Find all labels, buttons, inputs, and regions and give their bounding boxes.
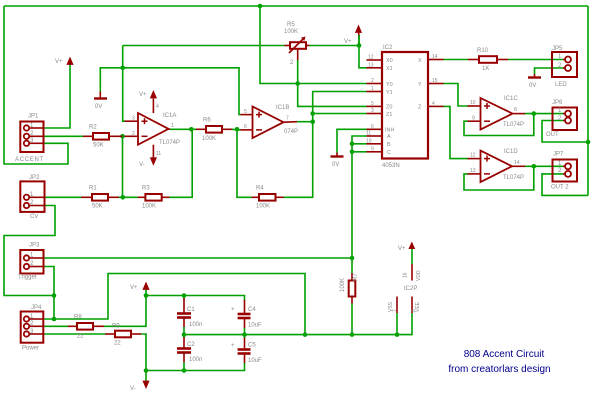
wire trimpot wiper down to Y0 and Z0 bbox=[298, 60, 367, 106]
svg-text:C4: C4 bbox=[248, 307, 256, 313]
junction top rail / Y0 drop bbox=[258, 4, 263, 9]
svg-text:12: 12 bbox=[368, 55, 374, 61]
wire 0V ground line to IC1B +in bbox=[100, 68, 240, 115]
junction GND rail C1 C2 bbox=[182, 332, 187, 337]
svg-text:JP3: JP3 bbox=[29, 243, 40, 249]
wire Z1 line bbox=[313, 113, 367, 115]
wire JP1 pin1 to V+ arrow bbox=[44, 63, 70, 128]
svg-text:50K: 50K bbox=[93, 143, 104, 149]
junction GND rail pulldown bbox=[350, 332, 355, 337]
svg-text:1: 1 bbox=[171, 123, 174, 129]
svg-text:7: 7 bbox=[286, 116, 289, 122]
svg-text:15: 15 bbox=[432, 78, 438, 84]
svg-text:OUT 2: OUT 2 bbox=[551, 185, 569, 191]
junction V- rail left bbox=[144, 368, 149, 373]
IC1A V+ power arrow bbox=[139, 90, 159, 113]
wire select A bbox=[352, 136, 367, 144]
svg-text:100K: 100K bbox=[142, 204, 156, 210]
junction right border JP6 pin2 bbox=[586, 140, 591, 145]
svg-text:IC2: IC2 bbox=[383, 45, 393, 51]
connector JP4 bbox=[21, 312, 44, 343]
wire X out to R10 bbox=[444, 59, 469, 61]
wire JP4 pin3 to R9 bbox=[44, 333, 105, 335]
junction left loop / JP3 pin2 bbox=[52, 293, 57, 298]
svg-text:14: 14 bbox=[432, 54, 438, 60]
svg-text:C2: C2 bbox=[187, 342, 195, 348]
wire IC1D feedback loop bbox=[464, 166, 534, 190]
junction IC1C output bbox=[532, 111, 537, 116]
svg-text:CV: CV bbox=[30, 214, 38, 220]
svg-text:C5: C5 bbox=[248, 343, 256, 349]
wire C2 bottom lead bbox=[183, 362, 185, 371]
wire trimpot line bbox=[123, 45, 285, 47]
V- arrow power section bbox=[130, 381, 150, 392]
svg-text:V+: V+ bbox=[344, 39, 352, 45]
junction IC1B -in / R4 feedback bbox=[235, 127, 240, 132]
wire JP2 pin1 to R1 bbox=[44, 196, 81, 198]
wire C5 top lead bbox=[244, 335, 246, 338]
wire left border down to JP1 pin3 bbox=[4, 6, 68, 164]
svg-text:100K: 100K bbox=[202, 136, 216, 142]
svg-text:X: X bbox=[418, 58, 422, 64]
svg-text:Z1: Z1 bbox=[386, 112, 392, 118]
wire R4 right to IC1B output vertical bbox=[284, 122, 313, 198]
wire IC2P VDD lead bbox=[411, 247, 413, 264]
resistor R10 output bbox=[468, 48, 508, 72]
svg-text:100K: 100K bbox=[340, 278, 346, 292]
junction IC1A -in node bbox=[120, 134, 125, 139]
labels JP7 / OUT 2 bbox=[551, 152, 569, 191]
junction V+ / trimpot line bbox=[357, 43, 362, 48]
wire V+ arrow to rail bbox=[145, 289, 147, 296]
svg-text:8: 8 bbox=[411, 309, 417, 312]
wire Y1 line bbox=[313, 92, 367, 122]
junction select B bbox=[350, 142, 355, 147]
wire Y out to IC1C +in bbox=[444, 84, 469, 107]
wire V- arrow stub bbox=[145, 371, 147, 382]
svg-text:13: 13 bbox=[470, 168, 476, 174]
wire JP5 pin2 to 0V bbox=[535, 68, 564, 74]
wire 0V to IC1A +in vertical bbox=[123, 46, 125, 122]
svg-text:100n: 100n bbox=[189, 322, 202, 328]
svg-text:C: C bbox=[387, 150, 391, 156]
svg-text:Y1: Y1 bbox=[386, 90, 393, 96]
wire C2 top lead bbox=[183, 335, 185, 338]
wire R8 to V+ vertical bbox=[104, 296, 146, 327]
svg-text:074P: 074P bbox=[284, 129, 298, 135]
wire GND mid rail bbox=[184, 313, 412, 335]
svg-text:R9: R9 bbox=[112, 324, 120, 330]
svg-text:IC1D: IC1D bbox=[504, 149, 518, 155]
ground 0V at IC2 INH bbox=[331, 153, 344, 169]
resistor R2 bbox=[83, 125, 123, 149]
junction JP4 pin1 bbox=[52, 317, 57, 322]
wire top rail drop to Y0 line bbox=[260, 6, 367, 84]
svg-text:Trigger: Trigger bbox=[18, 275, 37, 281]
connector JP6 bbox=[553, 108, 578, 131]
junction V+ rail left bbox=[144, 293, 149, 298]
svg-text:IC1B: IC1B bbox=[276, 105, 289, 111]
svg-text:R7: R7 bbox=[353, 273, 359, 281]
ground 0V at JP5 bbox=[528, 74, 541, 89]
svg-text:4: 4 bbox=[156, 104, 159, 110]
svg-text:V-: V- bbox=[139, 162, 145, 168]
svg-text:8: 8 bbox=[514, 107, 517, 113]
junction wiper / Y0 line bbox=[295, 81, 300, 86]
svg-text:13: 13 bbox=[368, 62, 374, 68]
svg-text:TL074P: TL074P bbox=[159, 140, 180, 146]
junction GND rail C4 C5 bbox=[242, 332, 247, 337]
wire JP4 pin2 to R8 bbox=[44, 325, 68, 327]
labels JP1 / ACCENT bbox=[15, 114, 44, 164]
svg-text:0V: 0V bbox=[529, 83, 536, 89]
wire V- rail bbox=[146, 363, 245, 371]
svg-text:22: 22 bbox=[114, 341, 121, 347]
svg-text:Z0: Z0 bbox=[386, 105, 392, 111]
op-amp IC1A bbox=[125, 113, 181, 146]
wire trigger line JP3 pin1 to pulldown bbox=[44, 257, 352, 259]
svg-text:+: + bbox=[231, 343, 235, 349]
connector JP7 bbox=[553, 160, 578, 182]
V+ arrow at trimpot line bbox=[344, 25, 362, 46]
wire IC1B feedback left vertical bbox=[237, 129, 252, 197]
svg-text:JP1: JP1 bbox=[28, 114, 39, 120]
svg-text:0V: 0V bbox=[95, 104, 102, 110]
svg-text:from creatorlars design: from creatorlars design bbox=[448, 364, 550, 375]
svg-text:50K: 50K bbox=[92, 204, 103, 210]
labels JP4 / Power bbox=[22, 305, 42, 352]
junction V- rail C2 bbox=[182, 368, 187, 373]
svg-text:OUT: OUT bbox=[546, 132, 559, 138]
svg-text:ACCENT: ACCENT bbox=[15, 157, 44, 163]
svg-text:6: 6 bbox=[371, 124, 374, 130]
svg-text:R6: R6 bbox=[203, 118, 211, 124]
svg-text:11: 11 bbox=[366, 131, 371, 137]
svg-text:+: + bbox=[231, 307, 235, 313]
capacitor C5 electrolytic bbox=[231, 338, 262, 365]
junction 0V line / IC1A +in drop bbox=[120, 66, 125, 71]
svg-text:4053N: 4053N bbox=[382, 163, 400, 169]
svg-text:V+: V+ bbox=[130, 285, 138, 291]
wire R6 right to IC1B -in bbox=[232, 128, 241, 131]
wire select C bbox=[352, 152, 367, 258]
wire R10 to JP5 pin1 bbox=[508, 59, 564, 61]
svg-text:IC1A: IC1A bbox=[163, 113, 176, 119]
junction trigger / pulldown bbox=[350, 256, 355, 261]
svg-text:V-: V- bbox=[130, 386, 136, 392]
svg-text:6: 6 bbox=[244, 124, 247, 130]
svg-text:22: 22 bbox=[77, 334, 84, 340]
wire right border down bbox=[587, 6, 589, 195]
wire JP4 pin1 to GND rail bbox=[44, 274, 305, 335]
labels JP2 / CV bbox=[29, 175, 40, 220]
svg-text:Y0: Y0 bbox=[386, 82, 393, 88]
svg-text:V+: V+ bbox=[55, 59, 63, 65]
svg-text:X1: X1 bbox=[386, 66, 393, 72]
wire C1 bottom lead bbox=[183, 327, 185, 335]
ground 0V near IC1A input network bbox=[94, 92, 107, 111]
wire select B bbox=[352, 144, 367, 152]
wire IC1A feedback down bbox=[123, 136, 138, 197]
wire INH to 0V bbox=[337, 129, 367, 152]
capacitor C1 bbox=[177, 298, 202, 328]
svg-text:9: 9 bbox=[371, 146, 374, 152]
svg-text:A: A bbox=[387, 134, 391, 140]
title text bbox=[448, 349, 550, 375]
wire V+ rail bbox=[146, 296, 245, 301]
svg-text:V+: V+ bbox=[398, 246, 406, 252]
svg-text:100n: 100n bbox=[189, 357, 202, 363]
svg-text:2: 2 bbox=[371, 78, 374, 84]
svg-text:IC2P: IC2P bbox=[404, 286, 417, 292]
V+ arrow power section bbox=[130, 282, 150, 292]
resistor R4 feedback IC1B bbox=[252, 186, 284, 210]
wire top rail bbox=[4, 5, 588, 7]
svg-text:5: 5 bbox=[244, 109, 247, 115]
svg-text:10: 10 bbox=[470, 100, 476, 106]
svg-text:R1: R1 bbox=[89, 186, 97, 192]
resistor R6 between op-amps bbox=[196, 118, 232, 143]
junction R1 R3 node bbox=[121, 195, 126, 200]
svg-text:X0: X0 bbox=[386, 58, 393, 64]
svg-text:2: 2 bbox=[132, 131, 135, 137]
svg-text:Power: Power bbox=[22, 346, 39, 352]
capacitor C2 bbox=[177, 337, 202, 363]
junction IC1D output bbox=[532, 164, 537, 169]
junction GND rail VSS bbox=[395, 332, 400, 337]
svg-text:R5: R5 bbox=[287, 22, 295, 28]
wire R9 to V- vertical bbox=[141, 334, 146, 371]
svg-text:5: 5 bbox=[371, 101, 374, 107]
wire JP1 pin2 to R2 bbox=[44, 135, 83, 137]
svg-text:JP7: JP7 bbox=[553, 152, 564, 158]
svg-text:3: 3 bbox=[132, 116, 135, 122]
wire C1 top lead bbox=[183, 296, 185, 300]
wire IC1A output line through R6 to IC1B bbox=[170, 128, 196, 130]
wire C4 bottom lead bbox=[244, 328, 246, 335]
connector JP3 bbox=[20, 250, 44, 274]
wire IC1D output to JP7 pin1 bbox=[525, 165, 564, 167]
svg-text:10uF: 10uF bbox=[248, 358, 262, 364]
capacitor C4 electrolytic bbox=[231, 300, 262, 329]
labels JP5 / LED bbox=[552, 46, 567, 88]
wire JP3 pin2 down bbox=[44, 267, 54, 320]
svg-text:R4: R4 bbox=[256, 186, 264, 192]
connector JP2 bbox=[20, 181, 44, 212]
svg-text:INH: INH bbox=[385, 128, 395, 134]
wire JP6 pin2 to right border bbox=[542, 121, 588, 143]
svg-text:TL074P: TL074P bbox=[503, 175, 524, 181]
wire JP2 pin2 lower left loop bbox=[4, 206, 55, 296]
junction IC1A out / R3 feedback bbox=[189, 127, 194, 132]
wire R3 right to feedback corner bbox=[170, 129, 193, 197]
connector JP1 bbox=[20, 122, 44, 153]
IC1A V- power arrow bbox=[139, 145, 161, 168]
wire JP7 pin2 to right border bottom bbox=[542, 174, 588, 196]
op-amp IC1C bbox=[468, 96, 526, 130]
svg-text:100K: 100K bbox=[284, 29, 298, 35]
svg-text:V+: V+ bbox=[139, 92, 147, 98]
wire R1 to junction bbox=[119, 196, 123, 198]
svg-text:JP6: JP6 bbox=[552, 100, 563, 106]
svg-text:10uF: 10uF bbox=[248, 323, 262, 329]
svg-text:10: 10 bbox=[366, 138, 372, 144]
junction GND rail trigger return bbox=[303, 332, 308, 337]
wire IC1C output to JP6 pin1 bbox=[525, 113, 564, 115]
svg-text:TL074P: TL074P bbox=[503, 122, 524, 128]
wire trimpot right to V+ junction to IC2 X1 bbox=[310, 45, 360, 47]
svg-text:11: 11 bbox=[156, 151, 161, 157]
svg-text:1: 1 bbox=[371, 86, 374, 92]
wire pulldown top lead bbox=[351, 258, 353, 273]
wire IC1B output bbox=[297, 121, 313, 123]
svg-text:12: 12 bbox=[470, 153, 476, 159]
V+ arrow top-left (JP1 pin1) bbox=[55, 57, 74, 66]
wire pulldown bottom to GND rail bbox=[351, 304, 353, 335]
svg-text:R10: R10 bbox=[477, 48, 489, 54]
resistor R3 bbox=[138, 186, 170, 210]
labels JP6 / OUT bbox=[546, 100, 563, 138]
svg-text:3: 3 bbox=[371, 108, 374, 114]
junction select C bbox=[350, 150, 355, 155]
resistor R7 pulldown vertical bbox=[340, 273, 359, 304]
svg-text:7: 7 bbox=[392, 309, 398, 312]
resistor R1 bbox=[81, 186, 119, 210]
op-amp IC1D bbox=[468, 149, 526, 182]
resistor R8 power bbox=[68, 315, 104, 340]
svg-text:Y: Y bbox=[418, 82, 422, 88]
IC2 analog switch 4053N bbox=[366, 45, 444, 169]
svg-text:R3: R3 bbox=[142, 186, 150, 192]
svg-text:R8: R8 bbox=[74, 315, 82, 321]
svg-text:LED: LED bbox=[555, 82, 567, 88]
connector JP5 bbox=[552, 52, 577, 77]
IC2P power gate bbox=[388, 242, 422, 314]
svg-text:R2: R2 bbox=[89, 125, 97, 131]
svg-text:IC1C: IC1C bbox=[504, 96, 518, 102]
svg-text:4: 4 bbox=[432, 101, 435, 107]
svg-text:1K: 1K bbox=[482, 66, 489, 72]
junction IC1B output bbox=[310, 119, 315, 124]
svg-text:14: 14 bbox=[514, 160, 520, 166]
svg-text:VDD: VDD bbox=[416, 270, 422, 281]
wire V+ arrow to X1 pin13 bbox=[359, 35, 367, 68]
wire IC1C feedback loop bbox=[464, 114, 534, 136]
wire Z out to IC1D +in bbox=[444, 106, 469, 158]
junction Z1 / IC1B out net bbox=[310, 111, 315, 116]
svg-text:0V: 0V bbox=[332, 162, 339, 168]
svg-text:9: 9 bbox=[472, 116, 475, 122]
resistor R9 power bbox=[105, 324, 141, 347]
svg-text:JP5: JP5 bbox=[552, 46, 563, 52]
junction V+ rail C1 bbox=[182, 293, 187, 298]
trimpot R5 bbox=[284, 22, 310, 66]
svg-text:16: 16 bbox=[403, 272, 409, 278]
labels JP3 / Trigger bbox=[18, 243, 40, 281]
svg-text:808 Accent Circuit: 808 Accent Circuit bbox=[464, 349, 545, 360]
svg-text:C1: C1 bbox=[187, 307, 195, 313]
svg-text:JP4: JP4 bbox=[31, 305, 42, 311]
svg-text:B: B bbox=[387, 142, 391, 148]
op-amp IC1B bbox=[241, 105, 299, 138]
svg-text:JP2: JP2 bbox=[29, 175, 40, 181]
svg-text:100K: 100K bbox=[256, 204, 270, 210]
wire IC2P VSS lead bbox=[396, 313, 398, 335]
